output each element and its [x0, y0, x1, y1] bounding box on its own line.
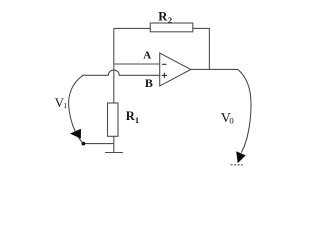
resistor R1 — [108, 103, 119, 136]
node junction dot — [82, 142, 86, 146]
wire feedback left vertical (node A to R1 top) — [113, 28, 115, 103]
wire non-inverting input / node B with hop over vertical wire — [82, 70, 160, 75]
V0 arrowhead — [236, 151, 246, 163]
op-amp U1 — [160, 53, 191, 86]
wire feedback top — [114, 27, 151, 29]
resistor R2 — [150, 23, 193, 32]
svg-text:R2: R2 — [158, 10, 172, 26]
reference mark under V0 arrowhead — [231, 164, 243, 166]
V1 arrowhead — [70, 129, 81, 139]
svg-text:B: B — [145, 76, 153, 90]
V1 source arrow curve — [69, 75, 83, 143]
svg-text:V0: V0 — [221, 111, 235, 126]
ground — [105, 152, 123, 154]
svg-text:R1: R1 — [126, 109, 139, 125]
V0 output arrow curve — [238, 69, 251, 152]
svg-text:A: A — [143, 49, 151, 61]
wire bottom node to ground stem — [83, 143, 113, 145]
svg-text:V1: V1 — [55, 96, 68, 110]
wire R1 bottom to ground — [113, 136, 115, 152]
wire R2 right down to output node — [193, 28, 210, 69]
wire inverting input / node A — [114, 63, 160, 65]
wire output — [191, 68, 238, 70]
